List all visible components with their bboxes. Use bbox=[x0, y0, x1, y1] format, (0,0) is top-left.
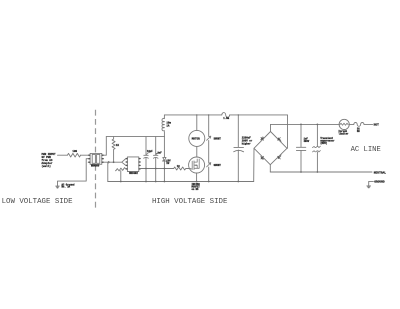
wire node to IC input bbox=[110, 159, 126, 166]
svg-text:HOT: HOT bbox=[374, 123, 379, 126]
ground AC side bbox=[56, 186, 60, 188]
svg-text:HIGH VOLTAGE SIDE: HIGH VOLTAGE SIDE bbox=[152, 198, 228, 206]
texts bbox=[42, 117, 387, 191]
wire rail to motor bbox=[196, 115, 198, 130]
shunt link 2 bbox=[207, 163, 211, 167]
svg-text:NEUTRAL: NEUTRAL bbox=[374, 172, 386, 175]
wire AC hot bbox=[271, 123, 340, 125]
wire PWR input to R1 bbox=[58, 154, 68, 156]
svg-text:10uF: 10uF bbox=[147, 150, 153, 153]
varistor RV1 MOV column bbox=[316, 124, 318, 146]
svg-text:No. 3A: No. 3A bbox=[62, 186, 71, 189]
svg-text:10: 10 bbox=[177, 165, 180, 168]
resistor R5 pulldown bbox=[116, 168, 125, 182]
resistor R1 100 bbox=[67, 153, 80, 157]
bridge rectifier BR1 bbox=[254, 115, 288, 182]
inductor L1 vertical bbox=[162, 115, 164, 137]
motor M1 bbox=[189, 130, 205, 146]
junction dots bbox=[113, 114, 319, 182]
svg-text:(MOV): (MOV) bbox=[320, 142, 328, 145]
zener D1 column bbox=[163, 137, 167, 162]
diode D5 bbox=[278, 155, 281, 159]
diode D2 bbox=[261, 137, 264, 140]
wire motor to MOSFET drain bbox=[196, 146, 198, 157]
svg-text:SHUNT: SHUNT bbox=[214, 164, 222, 167]
svg-text:NMA509: NMA509 bbox=[91, 164, 100, 167]
svg-text:MOTOR: MOTOR bbox=[192, 138, 200, 141]
optocoupler U2 body bbox=[126, 157, 141, 172]
diode D4 bbox=[261, 156, 264, 159]
svg-text:SB: SB bbox=[357, 130, 360, 133]
svg-text:100: 100 bbox=[72, 150, 77, 153]
svg-text:higher: higher bbox=[242, 142, 252, 145]
svg-text:400V: 400V bbox=[304, 140, 310, 143]
LV rail bbox=[106, 136, 164, 138]
fuse F1 bbox=[354, 122, 364, 126]
svg-text:(wall): (wall) bbox=[42, 164, 52, 168]
svg-text:limiter: limiter bbox=[338, 133, 349, 136]
svg-text:GROUND: GROUND bbox=[374, 181, 385, 184]
wire gate drive bbox=[141, 168, 174, 170]
svg-text:AC LINE: AC LINE bbox=[351, 146, 381, 154]
wire module out- down to LV common rail bbox=[104, 162, 108, 181]
shunt link 1 bbox=[207, 136, 211, 140]
wire inrush to fuse bbox=[349, 123, 354, 125]
wire module out+ up to LV rail bbox=[104, 137, 107, 156]
wire R1 to module bbox=[80, 154, 88, 156]
capacitor C2 column bbox=[153, 137, 158, 182]
svg-text:on HS: on HS bbox=[192, 188, 200, 191]
capacitor C1 column bbox=[144, 137, 149, 182]
wire module ground return to AC ground bbox=[58, 159, 89, 186]
svg-text:1K: 1K bbox=[116, 144, 120, 147]
svg-text:SHUNT: SHUNT bbox=[214, 137, 222, 140]
thermistor RT1 inrush bbox=[339, 119, 349, 129]
diode D3 bbox=[278, 138, 281, 142]
ground mains bbox=[369, 181, 374, 185]
dashed isolation line bbox=[95, 110, 97, 208]
arrow input node bbox=[108, 161, 110, 163]
capacitor C3 2200uF column bbox=[234, 115, 244, 182]
HV top rail with inductor L2 bbox=[164, 114, 221, 116]
svg-text:LOW VOLTAGE SIDE: LOW VOLTAGE SIDE bbox=[2, 198, 74, 206]
svg-text:MOC302: MOC302 bbox=[129, 172, 138, 175]
transistor Q1 MOSFET bbox=[189, 157, 205, 182]
resistor R3 gate 10 bbox=[174, 167, 189, 170]
capacitor C4 1uF column bbox=[296, 124, 305, 172]
svg-text:1A: 1A bbox=[166, 124, 170, 127]
LV bottom rail bbox=[108, 181, 254, 183]
svg-text:1.5m: 1.5m bbox=[223, 117, 229, 120]
resistor R4 (1K) column bbox=[112, 137, 115, 163]
wire fuse to HOT terminal bbox=[364, 123, 373, 125]
wire neutral bbox=[270, 171, 372, 173]
svg-text:.1uF: .1uF bbox=[156, 151, 162, 154]
DC-DC module U1 body bbox=[88, 153, 103, 164]
shunt column with links bbox=[208, 115, 210, 182]
